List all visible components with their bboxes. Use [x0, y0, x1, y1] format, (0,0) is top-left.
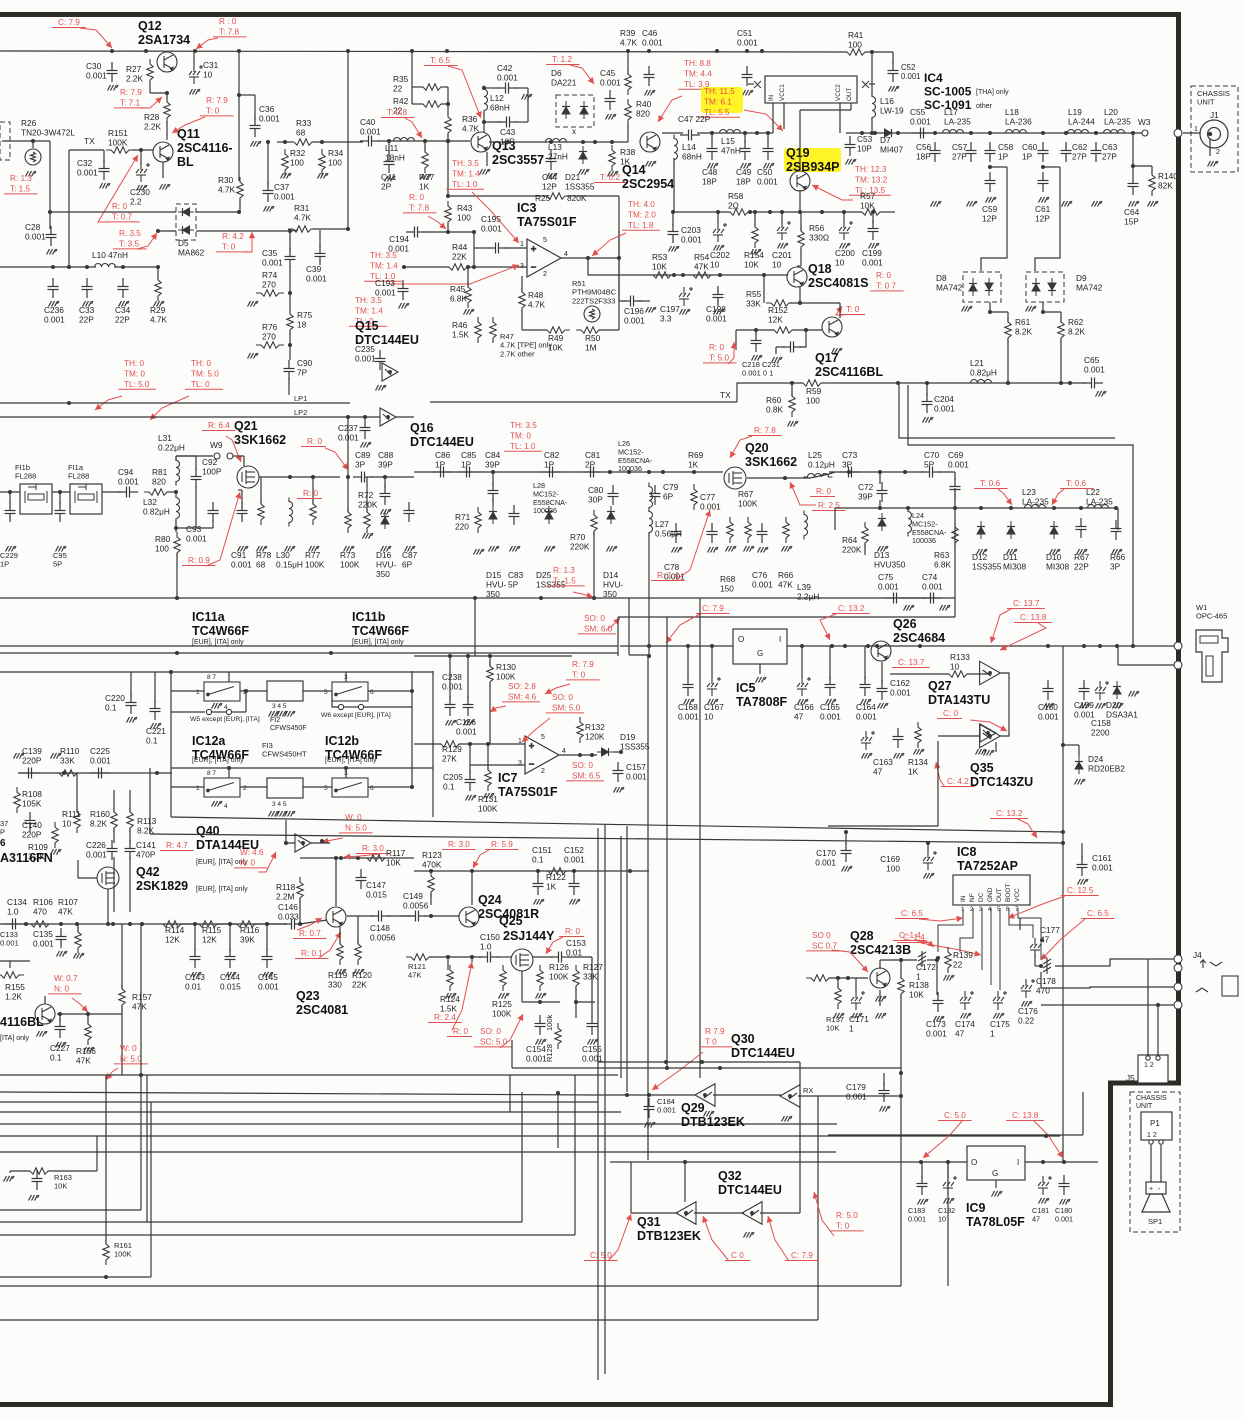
- ground: [782, 546, 793, 552]
- resistor R160: [111, 807, 117, 833]
- leader: [970, 720, 1007, 731]
- wire: [467, 266, 527, 268]
- wire power rail IC5: [620, 645, 733, 647]
- wire: [175, 520, 177, 532]
- pin: [1159, 1140, 1163, 1144]
- svg-text:BOOT: BOOT: [1005, 884, 1012, 902]
- junction: [617, 256, 621, 260]
- ground: [151, 723, 162, 729]
- wire: [1150, 1145, 1152, 1182]
- junction: [755, 131, 759, 135]
- ground: [257, 546, 268, 552]
- svg-text:+: +: [1149, 1186, 1153, 1193]
- svg-text:C1960.001: C1960.001: [624, 306, 645, 326]
- capacitor C43: [498, 117, 518, 128]
- svg-text:L10 47nH: L10 47nH: [92, 250, 128, 260]
- ground: [744, 1232, 755, 1238]
- wire: [1043, 302, 1061, 312]
- svg-text:SO: 2.8SM: 4.6: SO: 2.8SM: 4.6: [508, 682, 537, 701]
- capacitor C236: [48, 278, 59, 298]
- wire: [357, 916, 359, 944]
- svg-text:R: 0.1: R: 0.1: [301, 949, 323, 958]
- wire: [800, 109, 851, 111]
- diode D5b: [178, 226, 194, 234]
- junction: [710, 644, 714, 648]
- wire Q18 emitter: [799, 287, 801, 303]
- junction: [410, 49, 414, 53]
- svg-text:IN: IN: [768, 94, 775, 101]
- wire: [829, 471, 925, 473]
- leader: [258, 852, 276, 872]
- junction: [410, 689, 414, 693]
- junction: [85, 265, 89, 269]
- junction: [919, 1160, 923, 1164]
- ground: [399, 303, 410, 309]
- junction: [592, 596, 596, 600]
- wire: [990, 302, 1008, 312]
- ground: [1026, 306, 1037, 312]
- svg-text:C: 5.0: C: 5.0: [590, 1251, 612, 1260]
- capacitor C183: [917, 1175, 928, 1195]
- capacitor C143: [190, 948, 201, 968]
- svg-text:C: 6.5: C: 6.5: [901, 909, 923, 918]
- resistor R140: [1149, 170, 1155, 196]
- svg-text:2: 2: [1216, 149, 1220, 156]
- svg-text:C2360.001: C2360.001: [44, 305, 65, 325]
- wire: [423, 231, 474, 233]
- capacitor C81: [582, 467, 602, 478]
- capacitor C95: [55, 502, 66, 522]
- capacitor C53: [845, 136, 856, 156]
- inductor L39: [804, 511, 808, 540]
- leader: [1000, 623, 1046, 650]
- capacitor C203: [668, 223, 679, 243]
- ground: [961, 1013, 972, 1019]
- svg-text:R: 1.4: R: 1.4: [657, 571, 679, 580]
- capacitor C84: [488, 482, 499, 502]
- wire vertical: [509, 1075, 511, 1112]
- capacitor C157: [613, 762, 624, 782]
- capacitor C46: [644, 66, 655, 86]
- capacitor C74: [922, 593, 942, 604]
- wire: [522, 1001, 560, 1003]
- wire feedback top: [448, 195, 545, 197]
- capacitor C70: [921, 467, 941, 478]
- wire: [78, 877, 97, 879]
- wire node: [158, 230, 176, 232]
- capacitor C49: [740, 140, 751, 160]
- MOSFET Q21: [237, 466, 259, 488]
- junction: [111, 922, 115, 926]
- wire: [194, 924, 196, 951]
- svg-text:C: 13.8: C: 13.8: [1020, 613, 1047, 622]
- capacitor C56: [930, 142, 941, 162]
- wire: [411, 707, 413, 787]
- junction: [1044, 1134, 1048, 1138]
- wire: [2, 140, 50, 142]
- yellow highlight TH/TM/TL: [701, 87, 743, 113]
- wire: [195, 486, 197, 528]
- wire: [839, 303, 841, 318]
- wire: [759, 664, 761, 674]
- wire: [0, 1285, 901, 1287]
- wire: [512, 1067, 901, 1069]
- ground: [944, 1198, 955, 1204]
- svg-text:R1182.2M: R1182.2M: [276, 882, 296, 902]
- svg-text:R126100K: R126100K: [549, 962, 569, 982]
- transistor Q14: [640, 132, 660, 152]
- ground: [238, 546, 249, 552]
- junction: [470, 869, 474, 873]
- wire bus to IC8: [171, 817, 1063, 832]
- wire: [176, 553, 178, 598]
- IC box SC-1005: [765, 76, 857, 103]
- wire: [521, 276, 523, 292]
- capacitor C167: [707, 677, 721, 696]
- jack J4 arrow: [1200, 960, 1206, 968]
- ground: [782, 1116, 793, 1122]
- svg-text:+: +: [531, 244, 536, 254]
- wire long vertical bus: [604, 824, 606, 1374]
- wire: [10, 1170, 30, 1172]
- wire bus: [414, 655, 572, 657]
- resistor R25: [542, 193, 570, 199]
- ground: [1007, 549, 1018, 555]
- junction: [581, 140, 585, 144]
- svg-text:[THA] only: [THA] only: [976, 89, 1009, 96]
- wire: [763, 275, 765, 303]
- capacitor C134: [4, 919, 24, 930]
- jack plug symbol: [1196, 988, 1208, 992]
- leader: [319, 932, 341, 958]
- svg-text:[ITA] only: [ITA] only: [0, 1035, 30, 1042]
- wire: [938, 735, 980, 737]
- svg-text:C: 7.9: C: 7.9: [58, 18, 80, 27]
- capacitor C168: [683, 676, 694, 696]
- svg-text:[EUR], [ITA] only: [EUR], [ITA] only: [196, 886, 248, 893]
- junction: [1131, 164, 1135, 168]
- wire bus: [0, 1123, 837, 1125]
- svg-text:O: O: [738, 635, 744, 644]
- wire: [347, 417, 349, 477]
- svg-text:TH: 3.5TM: 1.4TL: 1.0: TH: 3.5TM: 1.4TL: 1.0: [452, 159, 480, 189]
- junction: [933, 131, 937, 135]
- capacitor C30: [107, 62, 118, 82]
- resistor R110: [54, 770, 82, 776]
- ground: [889, 86, 900, 92]
- capacitor C80: [608, 485, 619, 505]
- inductor L20: [1100, 130, 1129, 134]
- capacitor C198: [713, 286, 724, 306]
- ground: [277, 711, 288, 717]
- wire: [754, 212, 756, 226]
- capacitor C45: [605, 90, 616, 110]
- ground: [714, 309, 725, 315]
- capacitor C197: [679, 287, 693, 306]
- ground: [119, 301, 130, 307]
- wire: [68, 150, 70, 267]
- ground: [1129, 201, 1140, 207]
- op-amp IC7: [525, 736, 559, 774]
- transistor Q18: [787, 267, 807, 287]
- svg-text:J1: J1: [1210, 110, 1219, 120]
- capacitor C204: [922, 393, 933, 413]
- junction: [780, 210, 784, 214]
- resistor R64: [862, 522, 868, 548]
- junction: [692, 470, 696, 474]
- wire: [9, 492, 11, 504]
- svg-text:C1470.015: C1470.015: [366, 880, 387, 900]
- svg-text:5: 5: [541, 734, 545, 741]
- resistor R53: [648, 272, 676, 278]
- capacitor C69: [950, 478, 961, 498]
- wire vertical: [617, 617, 619, 656]
- capacitor C161: [1077, 856, 1088, 876]
- transistor Q26: [871, 641, 891, 661]
- ground: [1062, 201, 1073, 207]
- svg-text:VCC1: VCC1: [779, 84, 786, 101]
- wire: [303, 690, 332, 692]
- wire vertical: [947, 1162, 949, 1286]
- svg-text:C: 13.7: C: 13.7: [898, 658, 925, 667]
- resistor R33: [289, 139, 317, 145]
- wire TX bus: [430, 401, 737, 403]
- wire: [149, 85, 151, 93]
- wire: [673, 158, 675, 212]
- capacitor C180: [1059, 1175, 1070, 1195]
- junction: [836, 976, 840, 980]
- diode D19: [597, 748, 613, 756]
- junction: [473, 596, 477, 600]
- wire: [217, 923, 237, 925]
- svg-text:5: 5: [543, 237, 547, 244]
- svg-text:R282.2K: R282.2K: [144, 112, 162, 132]
- wire: [760, 1212, 800, 1214]
- wire: [789, 302, 840, 304]
- wire: [1007, 339, 1009, 383]
- capacitor C61: [1038, 172, 1049, 192]
- svg-text:1: 1: [196, 689, 200, 696]
- leader: [297, 918, 322, 930]
- junction: [339, 856, 343, 860]
- svg-text:R: 1.3T: 1.5: R: 1.3T: 1.5: [10, 174, 32, 193]
- wire: [319, 230, 321, 248]
- wire: [767, 133, 769, 143]
- wire: [492, 472, 494, 485]
- junction: [62, 771, 66, 775]
- ground: [212, 801, 223, 807]
- wire: [364, 706, 412, 708]
- wire: [1035, 965, 1041, 967]
- capacitor C91: [237, 502, 248, 522]
- capacitor C172: [918, 951, 926, 967]
- leader: [923, 1121, 962, 1158]
- wire: [496, 956, 511, 958]
- ground: [984, 750, 995, 756]
- capacitor C171: [851, 991, 865, 1010]
- svg-text:R5710K: R5710K: [860, 191, 876, 211]
- wire: [938, 471, 955, 473]
- wire: [196, 211, 239, 213]
- wire: [845, 832, 847, 845]
- svg-text:R461.5K: R461.5K: [452, 320, 470, 340]
- capacitor C178: [1043, 958, 1051, 974]
- capacitor C79: [650, 485, 661, 505]
- svg-text:R108105K: R108105K: [22, 789, 42, 809]
- junction: [574, 1000, 578, 1004]
- ground: [37, 1031, 48, 1037]
- resistor R155 body: [0, 972, 24, 978]
- ground: [570, 899, 581, 905]
- ground: [1077, 549, 1088, 555]
- resistor R30: [237, 177, 243, 203]
- wire: [76, 773, 78, 812]
- ground: [536, 993, 547, 999]
- ground: [645, 1122, 656, 1128]
- junction: [175, 651, 179, 655]
- wire: [1019, 918, 1021, 930]
- wire: [880, 211, 895, 213]
- connector pin: [1174, 983, 1182, 991]
- wire: [176, 455, 213, 457]
- resistor R57: [857, 209, 885, 215]
- capacitor C73: [840, 467, 860, 478]
- wire bus: [0, 652, 618, 654]
- ground: [226, 972, 237, 978]
- wire: [232, 711, 246, 713]
- filter FI2: [267, 681, 303, 701]
- junction: [539, 596, 543, 600]
- resistor R55: [766, 300, 794, 306]
- pin circle: [358, 704, 363, 709]
- wire: [1082, 1092, 1084, 1135]
- capacitor C59: [985, 172, 996, 192]
- wire: [239, 199, 241, 212]
- svg-text:R294.7K: R294.7K: [150, 305, 168, 325]
- pin circle: [206, 709, 211, 714]
- ground: [756, 677, 767, 683]
- svg-text:C5618P: C5618P: [916, 142, 932, 162]
- wire: [312, 141, 363, 143]
- wire: [347, 915, 374, 917]
- svg-text:C1840.001: C1840.001: [657, 1097, 676, 1115]
- svg-text:8 7: 8 7: [207, 770, 216, 777]
- wire: [288, 378, 290, 395]
- capacitor C42: [497, 83, 517, 94]
- ground: [880, 1106, 891, 1112]
- leader: [405, 118, 422, 138]
- junction: [445, 49, 449, 53]
- diode D11: [1007, 521, 1015, 539]
- wire: [908, 385, 1133, 645]
- ground: [1039, 197, 1050, 203]
- MOSFET Q42: [97, 867, 119, 889]
- wire: [411, 691, 413, 707]
- wire: [312, 477, 314, 504]
- junction: [846, 976, 850, 980]
- dashed box D5: [176, 204, 196, 240]
- capacitor C201: [777, 221, 791, 240]
- wire: [575, 956, 592, 958]
- connector on frame: [1174, 129, 1182, 137]
- connector W3: [1142, 130, 1148, 136]
- junction: [899, 958, 903, 962]
- junction: [953, 506, 957, 510]
- wire: [902, 597, 925, 599]
- ground: [285, 546, 296, 552]
- resistor R151: [106, 147, 134, 153]
- wire: [150, 92, 167, 94]
- svg-text:R: 0.7: R: 0.7: [299, 929, 321, 938]
- capacitor C225: [90, 768, 110, 779]
- resistor R44: [444, 264, 472, 270]
- resistor R59: [798, 380, 826, 386]
- leader: [814, 1192, 834, 1236]
- wire: [368, 786, 412, 788]
- wire: [245, 691, 247, 712]
- wire: [171, 711, 205, 713]
- svg-text:R: 2.5: R: 2.5: [818, 501, 840, 510]
- inductor L32 coil: [176, 494, 180, 523]
- leader R:7.9: [138, 97, 162, 108]
- svg-text:J5: J5: [1126, 1073, 1135, 1083]
- junction: [144, 49, 148, 53]
- svg-text:C140220P: C140220P: [22, 820, 42, 840]
- wire power rail right: [787, 645, 1174, 647]
- ground: [751, 249, 762, 255]
- wire: [49, 212, 51, 229]
- wire: [267, 142, 269, 185]
- wire: [240, 690, 267, 692]
- wire: [400, 915, 410, 917]
- wire: [890, 673, 949, 675]
- inductor L19: [1064, 130, 1093, 134]
- wire: [447, 957, 449, 970]
- junction: [139, 148, 143, 152]
- wire: [0, 1209, 141, 1211]
- capacitor C90: [284, 360, 295, 380]
- svg-text:R125100K: R125100K: [492, 999, 512, 1019]
- wire: [687, 646, 689, 679]
- wire: [879, 990, 881, 1006]
- wire: [347, 142, 349, 229]
- wire: [289, 266, 291, 313]
- wire: [228, 672, 230, 682]
- svg-text:R: 1.3T: -1.5: R: 1.3T: -1.5: [553, 566, 576, 585]
- svg-text:R600.8K: R600.8K: [766, 395, 784, 415]
- wire: [533, 956, 553, 958]
- wire: [52, 491, 70, 493]
- svg-text:100k: 100k: [545, 1014, 554, 1031]
- resistor R69: [691, 484, 697, 510]
- svg-text:[EUR], [ITA] only: [EUR], [ITA] only: [325, 757, 377, 764]
- resistor R124: [447, 965, 453, 991]
- diode D7: [880, 129, 896, 137]
- svg-text:x: x: [572, 127, 576, 136]
- resistor R154: [752, 222, 758, 248]
- junction: [265, 922, 269, 926]
- resistor R39: [625, 69, 631, 95]
- wire vertical: [96, 1136, 98, 1171]
- wire: [0, 1319, 818, 1321]
- leader: [150, 396, 189, 420]
- capacitor C193: [398, 280, 409, 300]
- svg-text:R80100: R80100: [155, 534, 171, 554]
- junction: [472, 265, 476, 269]
- svg-text:TH: 8.8TM: 4.4TL: 3.9: TH: 8.8TM: 4.4TL: 3.9: [684, 59, 712, 89]
- junction: [174, 490, 178, 494]
- inductor L30: [289, 498, 293, 527]
